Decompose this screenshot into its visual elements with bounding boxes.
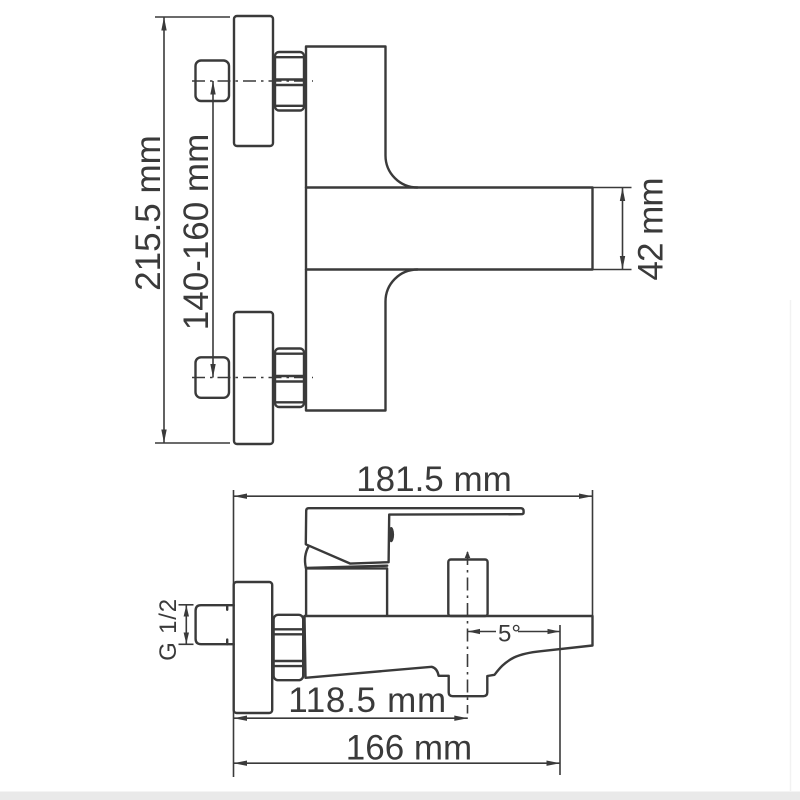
cartridge body — [306, 568, 387, 615]
dimension 5 deg line right part — [518, 631, 560, 633]
dimension 42 mm extension bottom — [593, 269, 632, 271]
hex nut top — [275, 52, 304, 111]
dimension 215.5 mm line — [163, 17, 165, 443]
diverter knob — [448, 560, 487, 617]
dimension 42 mm arrow up — [620, 188, 625, 202]
extension line right (spout end) — [592, 490, 594, 616]
dimension G1/2 line — [185, 605, 187, 644]
dimension 215.5 mm arrow down — [161, 430, 166, 444]
extension line at spout tip — [559, 625, 561, 775]
dimension 118.5 mm line — [234, 717, 468, 719]
spout bottom edge line — [306, 268, 418, 270]
dimension 215.5 mm extension line bottom — [155, 442, 230, 444]
eccentric union bottom — [196, 357, 230, 398]
knob centerline — [467, 552, 469, 714]
dimension 42 mm line — [622, 188, 624, 270]
wall flange — [234, 582, 273, 713]
dimension 215.5 mm extension line top — [155, 16, 230, 18]
svg-text:118.5 mm: 118.5 mm — [288, 681, 447, 720]
svg-text:5°: 5° — [498, 621, 521, 648]
dimension 166 mm line — [234, 762, 561, 764]
nipple tick top — [226, 605, 228, 610]
dimension 42 mm arrow down — [620, 256, 625, 270]
escutcheon plate top — [234, 16, 273, 146]
dimension 118.5 mm arrow left — [234, 716, 248, 721]
G1/2 nipple — [196, 605, 234, 644]
lever handle — [306, 508, 524, 563]
spout top edge line — [306, 186, 418, 188]
dimension 118.5 mm arrow right — [454, 716, 468, 721]
svg-text:140-160 mm: 140-160 mm — [177, 134, 216, 330]
dimension G1/2 extension bottom — [179, 643, 194, 645]
dimension 5 deg arrow right — [548, 629, 561, 634]
svg-text:42 mm: 42 mm — [632, 179, 671, 281]
hex nut bottom — [275, 349, 304, 408]
dimension G1/2 extension top — [179, 604, 194, 606]
mixer body top view — [306, 47, 593, 411]
escutcheon plate bottom — [234, 312, 273, 444]
dimension 140-160 mm line — [212, 81, 214, 378]
dimension G1/2 arrow up — [184, 605, 189, 617]
pin — [388, 527, 394, 542]
centerline bottom fitting — [192, 377, 313, 379]
dimension 166 mm arrow left — [234, 761, 248, 766]
dimension 42 mm extension top — [593, 187, 632, 189]
dimension 181.5 mm line — [234, 495, 593, 497]
svg-text:181.5 mm: 181.5 mm — [356, 460, 512, 499]
svg-text:G 1/2: G 1/2 — [155, 598, 182, 661]
dimension G1/2 arrow down — [184, 633, 189, 645]
dimension 181.5 mm arrow right — [579, 494, 593, 499]
eccentric union top — [196, 61, 230, 102]
body and spout side view — [305, 616, 593, 696]
dimension 5 deg arrow left — [468, 629, 481, 634]
centerline top fitting — [192, 80, 313, 82]
dimension 215.5 mm arrow up — [161, 17, 166, 31]
dimension 5 deg line left part — [468, 631, 497, 633]
dimension 181.5 mm arrow left — [234, 494, 248, 499]
dimension 140-160 mm arrow up — [210, 81, 215, 95]
knob centerline arrow — [465, 551, 471, 558]
page footer strip — [0, 792, 800, 800]
collar line — [306, 566, 387, 568]
handle heel arc — [305, 546, 309, 568]
faint page edge right — [790, 300, 792, 791]
dimension 166 mm arrow right — [547, 761, 561, 766]
extension line left (flange edge) — [233, 490, 235, 777]
svg-text:215.5 mm: 215.5 mm — [129, 135, 168, 291]
nipple tick bottom — [226, 640, 228, 645]
hex nut side view — [274, 615, 304, 680]
svg-text:166 mm: 166 mm — [346, 729, 472, 768]
dimension 140-160 mm arrow down — [210, 364, 215, 378]
